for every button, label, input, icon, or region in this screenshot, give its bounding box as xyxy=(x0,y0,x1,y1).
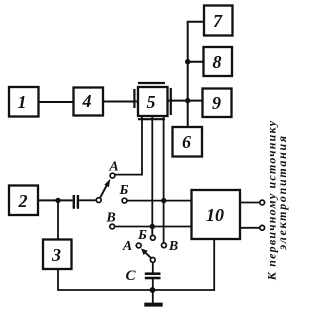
svg-text:10: 10 xyxy=(206,205,224,225)
wire bus to box7 xyxy=(187,21,203,23)
terminal circle output upper xyxy=(260,200,265,205)
junction dot ground bus xyxy=(150,287,156,293)
box 8 xyxy=(204,47,233,76)
wire terminal B(Б) to box10 xyxy=(127,200,191,202)
svg-text:В: В xyxy=(168,239,178,254)
wire box5 leg right vertical xyxy=(163,117,165,243)
shield bar bottom of box5 xyxy=(138,118,165,120)
box 6 xyxy=(173,127,203,157)
junction dot Б-wire xyxy=(161,198,166,203)
terminal Б circle bottom xyxy=(150,235,155,240)
switch top: arm with arrow xyxy=(100,183,108,198)
terminal В circle bottom xyxy=(162,243,167,248)
svg-text:5: 5 xyxy=(147,92,156,112)
wire box1 to box4 xyxy=(39,101,73,103)
switch bottom: terminal A circle xyxy=(136,243,141,248)
svg-text:А: А xyxy=(108,160,118,175)
wire box5 leg middle vertical xyxy=(151,117,153,235)
wire box10 output lower xyxy=(241,227,260,229)
wire branch down to box3 xyxy=(57,200,59,238)
svg-text:1: 1 xyxy=(18,92,27,112)
wire box4 to box5 xyxy=(104,101,137,103)
terminal circle output lower xyxy=(260,225,265,230)
svg-text:3: 3 xyxy=(51,245,61,265)
svg-text:Б: Б xyxy=(119,183,129,198)
svg-text:9: 9 xyxy=(212,93,221,113)
junction dot box2-box3 branch xyxy=(55,198,60,203)
switch bottom: common circle xyxy=(150,258,155,263)
wire terminal V(В) to box10 xyxy=(115,226,191,228)
terminal Б circle top xyxy=(122,198,127,203)
shield bar left of box5 xyxy=(133,89,135,108)
junction dot bus-box8 xyxy=(185,59,190,64)
box 2 xyxy=(9,186,38,216)
capacitor C plate bottom xyxy=(145,277,161,280)
wire capacitor to switch common xyxy=(79,199,96,201)
svg-text:6: 6 xyxy=(182,132,191,152)
capacitor C lead top xyxy=(152,262,154,273)
shield bar right of box5 xyxy=(170,88,172,115)
capacitor C lead bottom xyxy=(152,279,154,303)
junction dot В-wire xyxy=(150,224,155,229)
wire box10 output upper xyxy=(241,202,260,204)
switch top: terminal A circle xyxy=(110,173,115,178)
svg-text:4: 4 xyxy=(82,91,92,111)
wire box5 to box9 xyxy=(168,100,202,102)
box 1 xyxy=(9,87,39,117)
box 5 xyxy=(138,87,168,116)
shield bar top of box5 xyxy=(138,82,165,84)
svg-text:электропитания: электропитания xyxy=(275,134,289,250)
wire bus to box8 xyxy=(187,61,203,63)
svg-text:В: В xyxy=(105,211,115,226)
box 9 xyxy=(203,89,232,118)
wire vertical bus right xyxy=(187,22,189,127)
wire box5 leg left vertical xyxy=(141,117,143,175)
junction dot bus-main-wire xyxy=(185,98,190,103)
svg-text:7: 7 xyxy=(213,11,223,31)
capacitor coupling plate left xyxy=(73,195,75,209)
svg-text:Б: Б xyxy=(137,228,147,243)
terminal В circle left xyxy=(110,224,115,229)
svg-text:А: А xyxy=(122,239,132,254)
svg-text:С: С xyxy=(125,268,136,284)
capacitor C plate top xyxy=(145,272,161,275)
wire terminal A to leg xyxy=(115,174,143,176)
capacitor coupling plate right xyxy=(77,195,79,209)
wire box10 bottom leg xyxy=(213,240,215,291)
switch bottom: arm with arrow xyxy=(145,252,152,259)
wire box2 to capacitor xyxy=(39,199,73,201)
ground bar xyxy=(144,303,162,307)
box 7 xyxy=(204,6,233,36)
svg-text:2: 2 xyxy=(18,191,28,211)
box 10 xyxy=(192,190,241,239)
wire box3 down and bottom bus xyxy=(58,270,214,291)
switch top: common terminal circle xyxy=(96,198,101,203)
box 4 xyxy=(74,88,104,116)
svg-text:8: 8 xyxy=(213,52,222,72)
box 3 xyxy=(43,240,72,270)
